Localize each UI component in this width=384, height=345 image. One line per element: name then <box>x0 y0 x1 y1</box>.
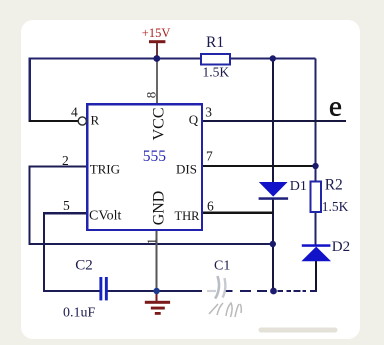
node junction TRIG bottom <box>270 241 276 247</box>
wire pin3 Q output <box>203 120 346 122</box>
watermark smudge <box>259 328 338 333</box>
capacitor C2 <box>99 277 107 300</box>
svg-text:e: e <box>329 91 342 123</box>
svg-text:CVolt: CVolt <box>89 209 122 224</box>
svg-text:1.5K: 1.5K <box>322 199 349 214</box>
wire right rail R2 to D2 <box>315 212 317 245</box>
node junction R1 output <box>270 55 276 61</box>
wire pin2 trig loop to bottom <box>30 167 273 245</box>
wire right rail upper <box>314 59 316 183</box>
svg-text:3: 3 <box>205 104 212 119</box>
wire bottom rail dashed segment 5 <box>287 290 292 292</box>
svg-text:1: 1 <box>144 238 159 245</box>
svg-text:R2: R2 <box>325 177 343 194</box>
svg-text:C1: C1 <box>214 259 230 274</box>
wire top rail with left drop <box>30 59 316 123</box>
wire pin6 thr <box>203 212 273 214</box>
svg-text:6: 6 <box>207 199 214 214</box>
wire bottom rail dashed segment 6 <box>294 290 301 292</box>
node junction ground tap <box>153 288 159 294</box>
resistor R1 <box>201 54 230 64</box>
svg-text:TRIG: TRIG <box>90 161 120 176</box>
node junction DIS R2 <box>312 163 318 169</box>
wire bottom rail dashed segment 7 <box>303 290 307 292</box>
wire pin7 dis <box>203 165 316 167</box>
pin 4 inversion bubble <box>78 117 86 125</box>
wire pin5 cvolt drop <box>44 213 99 291</box>
wire bottom rail C2 to ground to watermark <box>108 290 202 292</box>
svg-text:+15V: +15V <box>142 26 171 40</box>
wire bottom rail dashed segment 4 <box>278 290 284 292</box>
svg-text:555: 555 <box>143 148 167 165</box>
svg-text:D1: D1 <box>290 179 307 194</box>
diode D2 <box>301 244 331 261</box>
wire pin4 reset <box>29 120 78 122</box>
wire right rail D2 to bottom <box>315 261 317 292</box>
wire rail A top to D1 <box>272 59 274 183</box>
svg-text:4: 4 <box>71 105 78 120</box>
svg-text:0.1uF: 0.1uF <box>63 306 96 321</box>
node junction rail A bottom <box>270 288 277 295</box>
op-amp U1 555 IC body <box>87 104 202 230</box>
capacitor C1 ghosted by watermark <box>207 276 225 299</box>
resistor R2 <box>310 182 321 213</box>
wire pin8 vcc stub <box>156 59 158 105</box>
wire bottom rail dashed segment 1 <box>225 290 233 292</box>
svg-text:8: 8 <box>144 92 159 99</box>
wire bottom rail dashed segment 3 <box>257 290 267 292</box>
svg-text:7: 7 <box>206 149 213 164</box>
svg-text:R: R <box>91 113 100 128</box>
svg-text:DIS: DIS <box>176 161 197 176</box>
svg-text:GND: GND <box>150 191 167 226</box>
svg-text:THR: THR <box>175 209 201 223</box>
svg-text:D2: D2 <box>332 239 350 255</box>
svg-text:5: 5 <box>63 198 70 213</box>
wire bottom rail dashed segment 8 <box>310 290 317 292</box>
svg-text:2: 2 <box>62 153 69 168</box>
ground <box>145 291 170 315</box>
diode D1 <box>259 182 289 200</box>
watermark scribble <box>209 303 241 317</box>
svg-text:Q: Q <box>189 112 199 127</box>
wire rail A D1 to bottom <box>272 200 274 292</box>
node junction +15V tap <box>153 55 160 62</box>
wire pin1 gnd stub <box>156 230 158 291</box>
svg-text:C2: C2 <box>75 258 93 274</box>
wire bottom rail dashed segment 2 <box>240 290 251 292</box>
power +15V symbol <box>149 40 165 58</box>
svg-text:R1: R1 <box>206 34 224 51</box>
svg-text:VCC: VCC <box>151 107 168 140</box>
svg-text:1.5K: 1.5K <box>203 65 230 80</box>
